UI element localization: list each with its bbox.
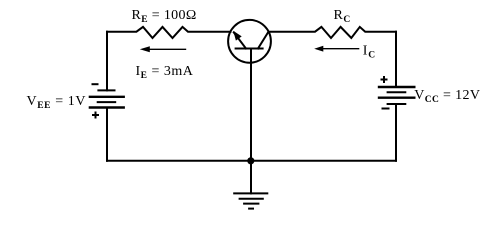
svg-text:VEE = 1V: VEE = 1V: [27, 94, 87, 111]
svg-text:VCC = 12V: VCC = 12V: [414, 88, 480, 105]
